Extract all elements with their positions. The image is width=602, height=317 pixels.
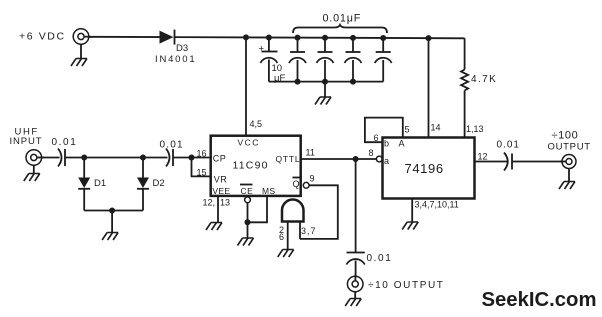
- wire bypass ground rail: [269, 81, 383, 83]
- diode D2: [137, 158, 149, 211]
- node CE/MS junction: [245, 219, 251, 225]
- svg-text:12: 12: [478, 152, 488, 162]
- svg-text:CP: CP: [213, 154, 227, 164]
- svg-text:IN4001: IN4001: [155, 54, 196, 65]
- svg-text:÷100: ÷100: [552, 130, 579, 142]
- svg-text:SeekIC.com: SeekIC.com: [482, 289, 597, 311]
- capacitor C8 0.01 (div-100 coupling): [504, 153, 512, 171]
- svg-text:Q: Q: [293, 179, 300, 189]
- wire D1-D2 ground bus: [84, 210, 143, 212]
- svg-text:CE: CE: [241, 186, 254, 196]
- svg-text:a: a: [384, 156, 389, 166]
- svg-text:11: 11: [306, 148, 315, 158]
- wire gate pin 3,7 stub: [299, 222, 301, 239]
- diode D3: [160, 30, 175, 45]
- wire rail corner down to R1: [464, 38, 466, 69]
- capacitor C2 0.01: [166, 149, 173, 167]
- wire CE pin down: [247, 203, 249, 238]
- svg-text:0.01: 0.01: [497, 140, 520, 151]
- gate U3 (AND, output to U1 Q-bar): [282, 200, 304, 222]
- ground (U2 bottom): [402, 222, 418, 230]
- svg-text:VR: VR: [214, 175, 228, 185]
- brace 0.01uF group: [293, 25, 387, 33]
- node C4 (junction on +V rail): [322, 35, 328, 41]
- wire junction to pin 15: [192, 158, 212, 177]
- node C6 (junction on +V rail): [380, 35, 386, 41]
- connector J4 (divide-by-100 output jack): [560, 155, 576, 169]
- svg-text:74196: 74196: [405, 161, 444, 176]
- svg-text:3,4,7,10,11: 3,4,7,10,11: [415, 200, 459, 210]
- svg-text:14: 14: [431, 123, 441, 133]
- ground (D1-D2): [102, 233, 118, 241]
- svg-text:11C90: 11C90: [233, 160, 269, 172]
- svg-text:D1: D1: [94, 178, 106, 189]
- svg-text:12,: 12,: [203, 198, 216, 208]
- svg-text:OUTPUT: OUTPUT: [548, 142, 591, 153]
- svg-text:9: 9: [310, 174, 315, 184]
- wire U1 QTTL pin 11 to U2 pin 8: [301, 158, 376, 160]
- capacitor C3 0.01uF bypass: [289, 38, 306, 82]
- connector J2 (UHF input jack): [26, 150, 44, 166]
- ground (bypass rail): [315, 97, 331, 105]
- ground (below UHF jack): [24, 174, 40, 182]
- ground (J4): [559, 182, 575, 190]
- capacitor C7 0.01 (div-10 coupling): [346, 253, 364, 277]
- wire branch down to C7: [355, 159, 357, 252]
- node gnd rail C3: [295, 79, 301, 85]
- svg-text:4,5: 4,5: [250, 119, 263, 129]
- svg-text:8: 8: [369, 148, 374, 158]
- node D2 branch: [140, 155, 146, 161]
- capacitor C5 0.01uF bypass: [345, 38, 362, 82]
- svg-text:6: 6: [374, 133, 379, 143]
- wire J4 to ground: [568, 169, 570, 182]
- capacitor C1 0.01: [58, 149, 65, 167]
- wire C8 to J4: [512, 161, 562, 163]
- svg-text:15: 15: [197, 168, 207, 178]
- svg-text:5: 5: [405, 125, 410, 135]
- wire C1 to C2: [65, 157, 168, 159]
- svg-text:13: 13: [220, 198, 230, 208]
- wire VEE pin 12,13 to ground: [217, 196, 219, 223]
- svg-text:6: 6: [279, 232, 284, 242]
- wire MS pin down and left: [248, 196, 268, 222]
- diode D1: [78, 158, 90, 211]
- capacitor C4 0.01uF bypass: [317, 38, 334, 82]
- svg-text:MS: MS: [262, 186, 275, 196]
- wire R1 to 74196 pin 1,13: [464, 91, 466, 138]
- wire +V rail (D3 cathode to 4.7K corner): [175, 37, 465, 38]
- svg-text:0.01: 0.01: [367, 253, 393, 264]
- pin CE inverter circle: [245, 197, 251, 203]
- wire +V rail to 74196 pin 14: [428, 38, 430, 137]
- wire J1 to ground: [80, 44, 82, 58]
- node pin15/16 junction: [189, 155, 195, 161]
- svg-text:INPUT: INPUT: [10, 136, 43, 147]
- node pin-14 branch (junction on +V rail): [426, 35, 432, 41]
- svg-text:1,13: 1,13: [466, 124, 484, 134]
- wire gnd rail stem: [324, 82, 326, 97]
- svg-text:0.01μF: 0.01μF: [323, 13, 362, 25]
- wire J2 to C1: [42, 157, 60, 159]
- svg-text:16: 16: [197, 149, 207, 159]
- wire junction to ground: [111, 211, 113, 233]
- node gnd rail C4: [322, 79, 328, 85]
- capacitor 10uF (electrolytic): [260, 38, 277, 82]
- op IC U2 74196 box: [383, 138, 475, 199]
- svg-text:D2: D2: [153, 178, 165, 189]
- node 10uF branch (junction on +V rail): [266, 35, 272, 41]
- svg-text:A: A: [399, 139, 405, 149]
- ground (CE/MS): [238, 238, 254, 246]
- capacitor C6 0.01uF bypass: [375, 38, 392, 82]
- op IC U1 11C90 box: [211, 136, 301, 196]
- node VCC branch (junction on +V rail): [243, 34, 249, 40]
- connector J1 (+6 VDC input jack): [73, 29, 92, 45]
- resistor R1 4.7K: [461, 70, 468, 91]
- node divide-by-10 branch: [353, 156, 359, 162]
- svg-text:D3: D3: [176, 43, 188, 54]
- wire J1 to D3 anode: [89, 36, 160, 38]
- wire gate pin 2,6 to ground: [287, 222, 289, 250]
- ground (VEE): [206, 223, 222, 231]
- svg-text:QTTL: QTTL: [276, 154, 301, 164]
- svg-text:VCC: VCC: [238, 138, 260, 148]
- svg-text:0.01: 0.01: [52, 137, 78, 148]
- node C3 (junction on +V rail): [295, 35, 301, 41]
- label CE with overline (U1): [240, 185, 253, 196]
- node D1-D2 ground junction: [109, 208, 115, 214]
- ground (below +6 VDC jack): [71, 59, 87, 67]
- node C5 (junction on +V rail): [350, 35, 356, 41]
- wire pin 6 to pin 5 feedback loop: [365, 118, 403, 143]
- wire U2 bottom pins to ground: [411, 199, 413, 223]
- svg-text:4.7K: 4.7K: [471, 74, 497, 85]
- wire +V rail to 11C90 VCC pin 4,5: [245, 37, 247, 135]
- ground (J3): [345, 299, 361, 307]
- svg-text:3,7: 3,7: [301, 226, 317, 236]
- svg-text:+6 VDC: +6 VDC: [19, 31, 66, 43]
- wire U2 pin 12 to C8: [475, 161, 508, 163]
- svg-text:+: +: [259, 44, 265, 55]
- svg-text:VEE: VEE: [212, 186, 230, 196]
- wire pin 9 loop to gate input 3,7: [300, 185, 338, 239]
- wire J3 to ground: [354, 292, 356, 299]
- node D1 branch: [81, 155, 87, 161]
- pin 9 inverter circle (U1 Q-bar output): [303, 182, 309, 188]
- wire J2 to ground: [33, 165, 35, 173]
- svg-text:÷10 OUTPUT: ÷10 OUTPUT: [368, 280, 445, 291]
- ground (gate input 2,6): [278, 250, 294, 258]
- pin 8 inverter circle (U2): [376, 156, 382, 162]
- label Q-bar (U1): [293, 178, 300, 190]
- wire C2 to 11C90 pin 16: [173, 157, 211, 159]
- connector J3 (divide-by-10 output jack): [347, 274, 363, 292]
- svg-text:0.01: 0.01: [160, 140, 184, 151]
- svg-text:b: b: [384, 139, 389, 149]
- node gnd rail C5: [350, 79, 356, 85]
